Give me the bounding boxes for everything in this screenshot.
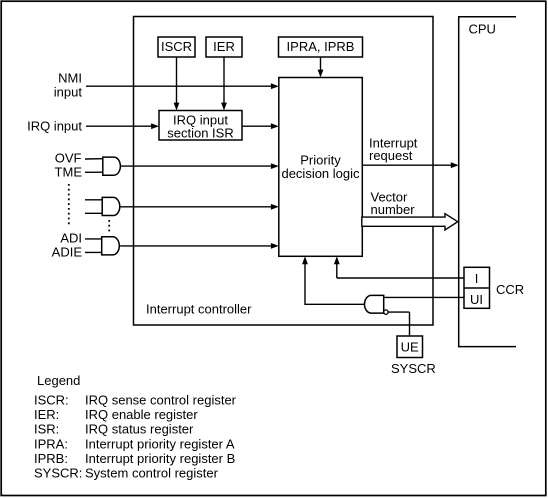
svg-text:CPU: CPU — [469, 22, 496, 37]
IRQ input section ISR block — [159, 111, 242, 141]
svg-text:IER: IER — [213, 39, 235, 54]
wire IER to ISR box — [221, 57, 227, 111]
wire gate4 output to priority block — [302, 256, 365, 305]
wire to gate2 upper — [85, 199, 103, 201]
svg-text:decision logic: decision logic — [281, 166, 360, 181]
legend — [34, 373, 237, 481]
svg-text:CCR: CCR — [496, 282, 524, 297]
wire I bit to priority block — [334, 256, 464, 278]
svg-text:IER:: IER: — [34, 407, 59, 422]
wire gate1 to priority block — [121, 163, 279, 169]
svg-text:ISCR: ISCR — [161, 39, 192, 54]
svg-text:OVF: OVF — [55, 151, 82, 166]
svg-text:UE: UE — [401, 340, 419, 355]
svg-text:IRQ enable register: IRQ enable register — [85, 407, 198, 422]
wire gate2 to priority block — [121, 204, 279, 210]
svg-text:ISR:: ISR: — [34, 422, 59, 437]
wire IPRA,IPRB to priority block — [318, 57, 324, 78]
wire to gate2 lower — [85, 212, 103, 214]
AND gate 3 (ADI,ADIE) — [102, 237, 120, 255]
label Interrupt request — [369, 135, 418, 163]
svg-text:Legend: Legend — [37, 373, 80, 388]
wire ISCR to ISR box — [174, 57, 180, 111]
CCR register (I / UI) — [464, 267, 490, 308]
svg-text:Interrupt priority register A: Interrupt priority register A — [85, 436, 235, 451]
svg-text:IPRA:: IPRA: — [34, 436, 68, 451]
svg-text:ISCR:: ISCR: — [34, 393, 69, 408]
register ISCR — [158, 37, 195, 57]
svg-text:IRQ sense control register: IRQ sense control register — [85, 393, 237, 408]
vector number bus arrow — [362, 214, 458, 230]
svg-text:SYSCR:: SYSCR: — [34, 466, 82, 481]
svg-text:IRQ input: IRQ input — [27, 119, 82, 134]
svg-text:Interrupt controller: Interrupt controller — [146, 302, 252, 317]
dotted continuation left — [68, 184, 70, 227]
register IER — [206, 37, 242, 57]
CPU block — [459, 17, 516, 347]
interrupt controller block — [134, 17, 434, 326]
wire TME to gate — [85, 171, 103, 173]
svg-text:request: request — [369, 148, 413, 163]
dotted continuation below gate2 — [108, 220, 110, 234]
svg-text:ADI: ADI — [60, 231, 82, 246]
wire ADIE to gate3 — [85, 251, 102, 253]
AND gate 1 (OVF,TME) — [103, 157, 121, 175]
label NMI input — [54, 71, 83, 100]
svg-text:SYSCR: SYSCR — [391, 361, 436, 376]
wire NMI input to priority block — [86, 83, 279, 89]
svg-text:IPRB:: IPRB: — [34, 451, 68, 466]
svg-text:number: number — [371, 202, 416, 217]
svg-text:NMI: NMI — [58, 71, 82, 86]
priority decision logic block — [279, 78, 363, 257]
wire ADI to gate3 — [85, 238, 102, 240]
AND gate 2 — [102, 197, 120, 215]
svg-text:ADIE: ADIE — [52, 245, 83, 260]
svg-text:section ISR: section ISR — [167, 126, 233, 141]
wire interrupt request to CPU — [362, 162, 458, 168]
svg-text:IPRA, IPRB: IPRA, IPRB — [287, 39, 355, 54]
register IPRA, IPRB — [279, 37, 363, 57]
label Vector number — [371, 190, 416, 218]
wire gate3 to priority block — [120, 243, 279, 249]
svg-text:TME: TME — [55, 165, 83, 180]
NAND gate 4 (UI, UE) facing left — [365, 295, 389, 314]
wire IRQ input to ISR box — [86, 123, 159, 129]
wire ISR box to priority block — [242, 123, 279, 129]
svg-text:System control register: System control register — [85, 466, 219, 481]
SYSCR register UE — [397, 336, 423, 358]
svg-text:UI: UI — [470, 292, 483, 307]
wire UE bit to gate4 — [388, 312, 409, 336]
svg-text:Interrupt priority register B: Interrupt priority register B — [85, 451, 235, 466]
wire OVF to gate — [85, 158, 103, 160]
svg-text:IRQ status register: IRQ status register — [85, 422, 194, 437]
svg-text:input: input — [54, 85, 83, 100]
svg-text:I: I — [475, 271, 479, 286]
wire UI bit to gate4 — [384, 296, 464, 298]
